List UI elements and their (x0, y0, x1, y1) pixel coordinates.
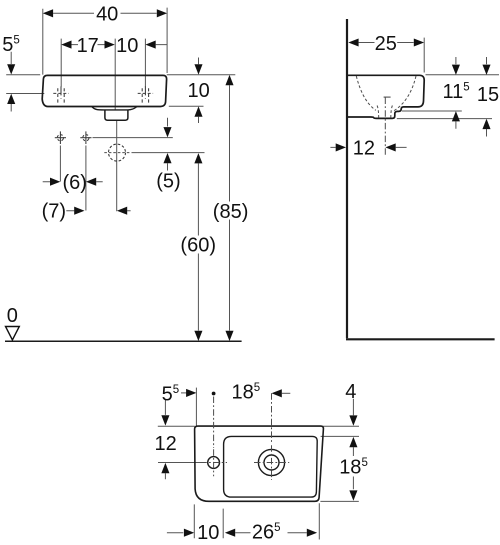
svg-text:10: 10 (116, 35, 138, 57)
svg-text:(6): (6) (62, 172, 86, 194)
svg-text:12: 12 (154, 433, 176, 455)
svg-text:0: 0 (7, 305, 18, 327)
svg-text:40: 40 (96, 4, 118, 26)
svg-text:10: 10 (197, 522, 219, 544)
svg-text:(85): (85) (213, 201, 249, 223)
svg-text:12: 12 (353, 137, 375, 159)
svg-text:17: 17 (77, 35, 99, 57)
svg-text:15: 15 (477, 84, 499, 106)
svg-text:10: 10 (187, 80, 209, 102)
svg-text:25: 25 (375, 33, 397, 55)
svg-text:(60): (60) (180, 235, 216, 257)
svg-text:(5): (5) (156, 171, 180, 193)
svg-text:(7): (7) (42, 201, 66, 223)
svg-text:4: 4 (345, 381, 356, 403)
